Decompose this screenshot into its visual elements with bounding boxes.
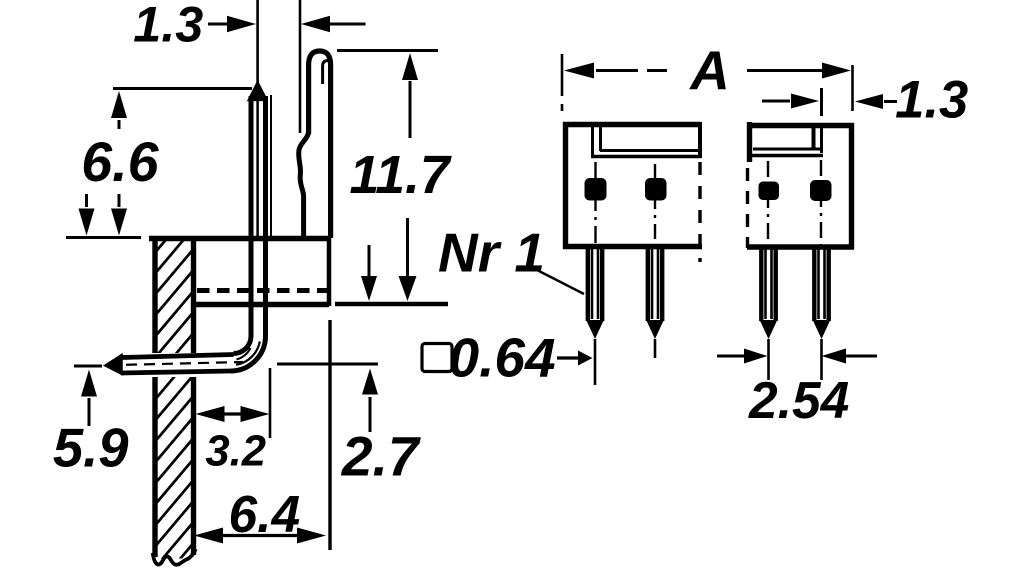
dim 2.54 arrows — [717, 349, 877, 364]
pin 4 centerline in body — [820, 160, 822, 246]
left portion slot — [591, 127, 701, 157]
dim 5.9 arrow — [81, 370, 97, 427]
svg-text:1.3: 1.3 — [133, 0, 203, 53]
body side view: bottom edge — [194, 302, 329, 307]
dim 1.3 (left view) arrows — [208, 16, 366, 32]
dim 0.64 arrow — [557, 351, 593, 366]
dim 11.7: bottom extension line — [335, 302, 448, 306]
dim 3.2 extension line — [269, 368, 272, 438]
dim A: left extension line — [561, 54, 564, 111]
dim 3.2 arrows — [196, 406, 270, 422]
dim A right extension line — [851, 65, 854, 111]
body front view, right portion outline — [747, 122, 854, 249]
svg-text:Nr 1: Nr 1 — [438, 221, 545, 283]
dim 1.3 (right view) tick — [820, 88, 823, 116]
dim 6.6 arrows — [79, 91, 128, 236]
pin 3 (front) — [760, 249, 778, 380]
bent solder pin (down + left through panel) — [121, 336, 266, 373]
dim 2.7 lower arrow — [362, 369, 378, 433]
body side view: right edge — [327, 238, 332, 306]
seating extension line (left of panel) — [66, 236, 141, 239]
dim 1.3 (right view) arrows — [762, 94, 897, 110]
dim A right arrow — [747, 63, 851, 79]
Nr 1 leader line — [537, 270, 584, 294]
dim 2.7 pin-level line — [277, 363, 378, 366]
pin 3 centerline in body — [767, 161, 769, 246]
svg-text:6.6: 6.6 — [81, 131, 159, 193]
svg-text:5.9: 5.9 — [53, 418, 129, 479]
svg-text:2.7: 2.7 — [341, 426, 421, 488]
svg-text:6.4: 6.4 — [229, 485, 301, 543]
body side view: top edge — [149, 236, 331, 241]
right portion slot — [747, 127, 823, 156]
body front view, left portion outline — [563, 122, 702, 262]
svg-text:2.54: 2.54 — [748, 371, 849, 429]
pin 2 centerline in body — [654, 164, 656, 247]
short pin (up), side view — [250, 85, 271, 337]
pin 1 hole dot — [585, 178, 607, 201]
pin 1 (front) — [586, 249, 604, 385]
pin 1 centerline in body — [594, 162, 596, 247]
body side view: hidden dashed line — [197, 288, 328, 293]
svg-text:0.64: 0.64 — [449, 327, 556, 389]
square symbol of 0.64 — [422, 344, 452, 372]
svg-text:11.7: 11.7 — [350, 146, 452, 205]
tall contact pin, side view — [299, 51, 331, 238]
pin 2 hole dot — [645, 178, 667, 201]
pin 2 (front) — [646, 249, 664, 358]
bent pin tip — [105, 354, 123, 374]
panel (PCB cross-section, hatched) — [155, 238, 194, 557]
pin 4 (front) — [813, 249, 831, 380]
dim A left arrow — [564, 63, 667, 79]
extension line above tall pin — [299, 0, 302, 133]
right extension line (6.4 / 2.7) — [328, 320, 331, 550]
svg-text:1.3: 1.3 — [895, 71, 968, 130]
panel hatch lines — [156, 207, 194, 570]
dim 11.7 arrows — [399, 53, 419, 301]
pin 3 hole dot — [759, 182, 780, 201]
dim 2.7 upper arrow (down to body bottom line) — [361, 245, 377, 301]
dim 6.4 arrows — [194, 528, 326, 544]
dim 11.7: top extension line — [337, 49, 438, 52]
dim 5.9: tick at pin level — [74, 365, 102, 368]
dim 6.6: extension line at pin tip level — [113, 87, 252, 90]
pin hole through panel (white gap) — [149, 353, 199, 377]
bent pin dashed centerline — [126, 362, 243, 365]
short pin centerline above tip — [256, 0, 259, 84]
svg-text:3.2: 3.2 — [205, 428, 266, 476]
pin 4 hole dot — [810, 180, 832, 201]
panel bottom break (wavy) — [153, 549, 196, 565]
svg-text:A: A — [688, 39, 730, 101]
